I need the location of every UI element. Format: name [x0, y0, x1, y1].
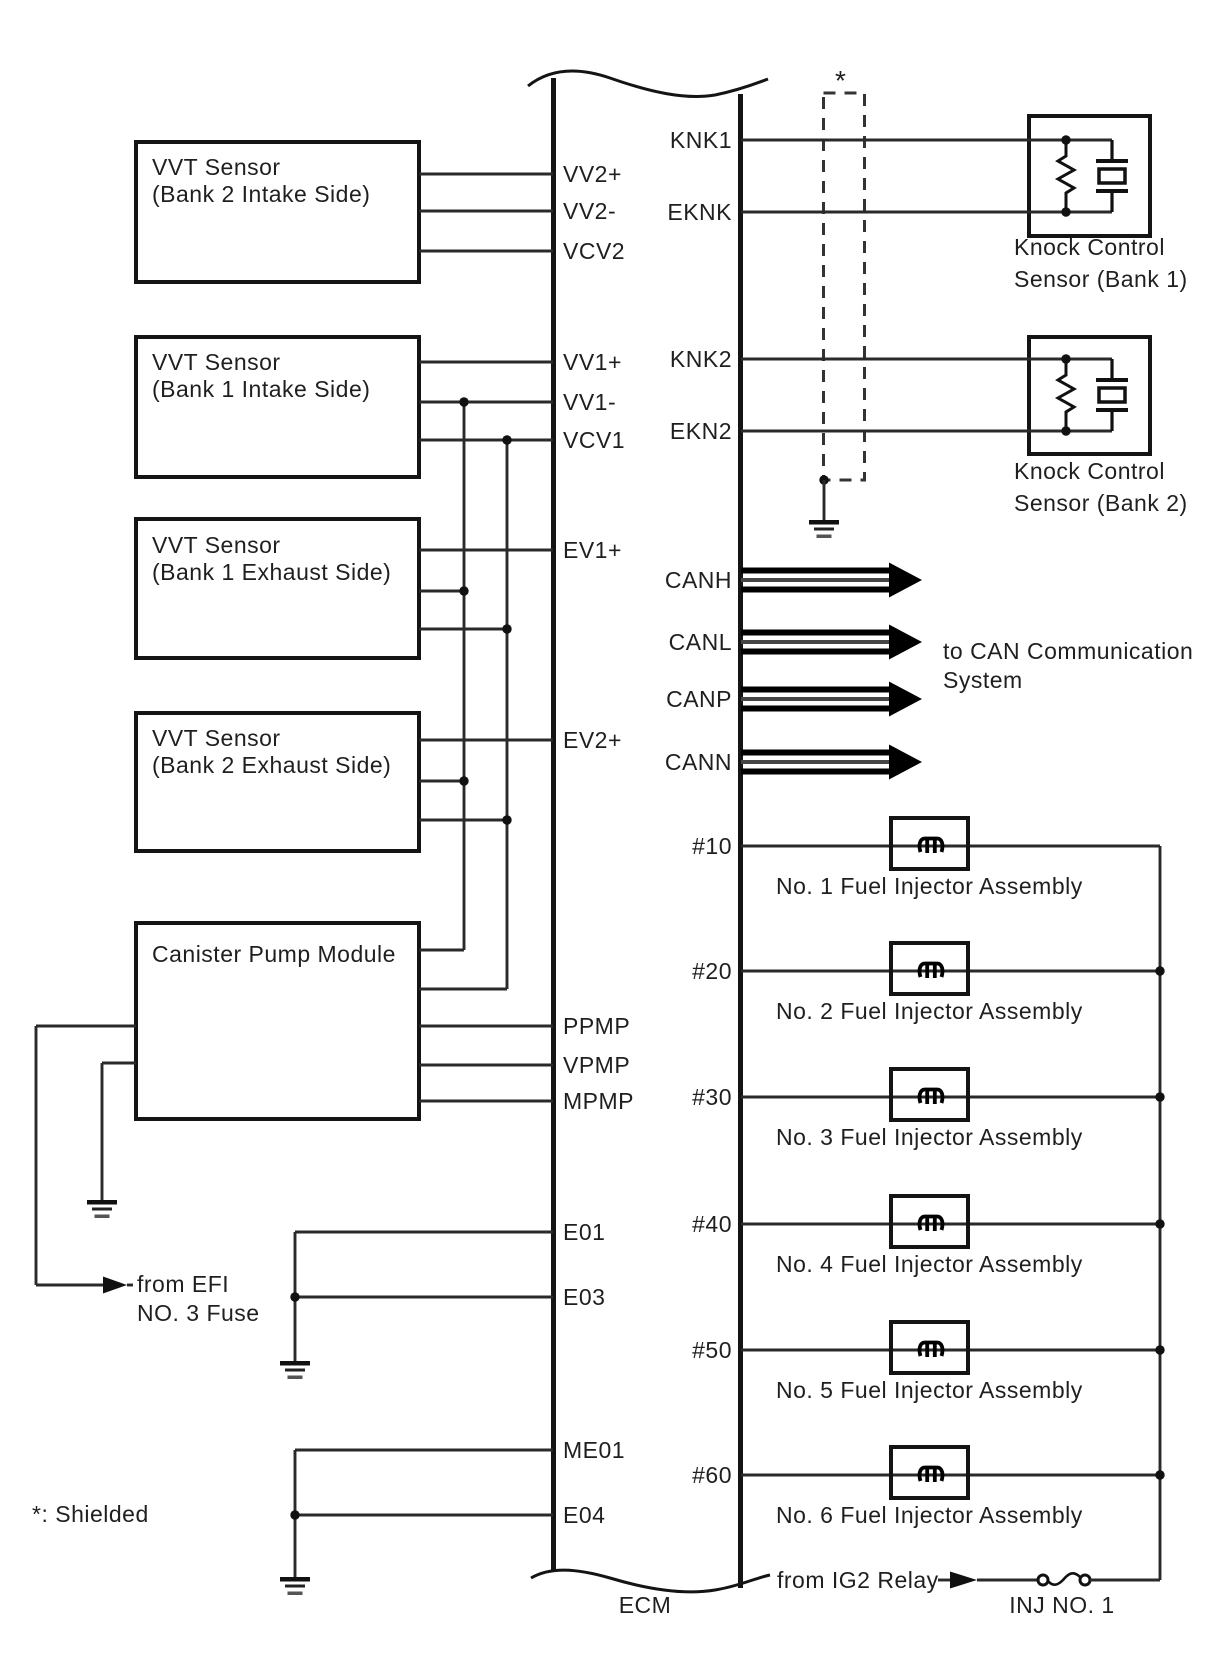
svg-text:VVT Sensor: VVT Sensor [152, 154, 281, 180]
svg-text:No. 2 Fuel Injector Assembly: No. 2 Fuel Injector Assembly [776, 998, 1083, 1024]
svg-text:*: Shielded: *: Shielded [32, 1501, 149, 1527]
svg-text:VV2-: VV2- [563, 198, 616, 224]
svg-text:No. 1 Fuel Injector Assembly: No. 1 Fuel Injector Assembly [776, 873, 1083, 899]
svg-text:VV2+: VV2+ [563, 161, 622, 187]
svg-text:CANP: CANP [666, 686, 732, 712]
svg-text:Canister Pump Module: Canister Pump Module [152, 941, 396, 967]
svg-text:NO. 3 Fuse: NO. 3 Fuse [137, 1300, 260, 1326]
svg-text:CANL: CANL [669, 629, 732, 655]
svg-text:VVT Sensor: VVT Sensor [152, 349, 281, 375]
svg-text:#20: #20 [692, 958, 732, 984]
svg-text:from EFI: from EFI [137, 1271, 229, 1297]
svg-text:#30: #30 [692, 1084, 732, 1110]
svg-text:(Bank 1 Intake Side): (Bank 1 Intake Side) [152, 376, 370, 402]
svg-text:PPMP: PPMP [563, 1013, 630, 1039]
svg-text:EKNK: EKNK [667, 199, 732, 225]
svg-text:KNK2: KNK2 [670, 346, 732, 372]
svg-text:(Bank 1 Exhaust Side): (Bank 1 Exhaust Side) [152, 559, 391, 585]
svg-text:Sensor (Bank 2): Sensor (Bank 2) [1014, 490, 1188, 516]
svg-text:MPMP: MPMP [563, 1088, 634, 1114]
svg-text:(Bank 2 Exhaust Side): (Bank 2 Exhaust Side) [152, 752, 391, 778]
svg-text:E01: E01 [563, 1219, 605, 1245]
svg-text:to CAN Communication: to CAN Communication [943, 638, 1193, 664]
svg-text:System: System [943, 667, 1023, 693]
svg-text:Knock Control: Knock Control [1014, 458, 1165, 484]
svg-text:EKN2: EKN2 [670, 418, 732, 444]
svg-text:ECM: ECM [619, 1592, 672, 1618]
svg-text:VCV2: VCV2 [563, 238, 625, 264]
svg-text:Knock Control: Knock Control [1014, 234, 1165, 260]
svg-text:No. 4 Fuel Injector Assembly: No. 4 Fuel Injector Assembly [776, 1251, 1083, 1277]
svg-text:Sensor (Bank 1): Sensor (Bank 1) [1014, 266, 1188, 292]
svg-text:VCV1: VCV1 [563, 427, 625, 453]
svg-text:*: * [835, 65, 846, 96]
svg-text:CANN: CANN [665, 749, 732, 775]
svg-text:VVT Sensor: VVT Sensor [152, 532, 281, 558]
svg-text:#40: #40 [692, 1211, 732, 1237]
svg-text:VVT Sensor: VVT Sensor [152, 725, 281, 751]
svg-text:from IG2 Relay: from IG2 Relay [777, 1567, 939, 1593]
svg-text:VV1-: VV1- [563, 389, 616, 415]
svg-text:#60: #60 [692, 1462, 732, 1488]
svg-text:#50: #50 [692, 1337, 732, 1363]
svg-text:E03: E03 [563, 1284, 605, 1310]
svg-text:E04: E04 [563, 1502, 605, 1528]
svg-text:VPMP: VPMP [563, 1052, 630, 1078]
svg-text:EV2+: EV2+ [563, 727, 622, 753]
svg-text:VV1+: VV1+ [563, 349, 622, 375]
svg-text:CANH: CANH [665, 567, 732, 593]
svg-text:INJ NO. 1: INJ NO. 1 [1009, 1592, 1114, 1618]
svg-text:EV1+: EV1+ [563, 537, 622, 563]
svg-text:KNK1: KNK1 [670, 127, 732, 153]
svg-text:#10: #10 [692, 833, 732, 859]
svg-text:ME01: ME01 [563, 1437, 625, 1463]
svg-text:No. 6 Fuel Injector Assembly: No. 6 Fuel Injector Assembly [776, 1502, 1083, 1528]
svg-text:No. 3 Fuel Injector Assembly: No. 3 Fuel Injector Assembly [776, 1124, 1083, 1150]
svg-text:(Bank 2 Intake Side): (Bank 2 Intake Side) [152, 181, 370, 207]
svg-text:No. 5 Fuel Injector Assembly: No. 5 Fuel Injector Assembly [776, 1377, 1083, 1403]
